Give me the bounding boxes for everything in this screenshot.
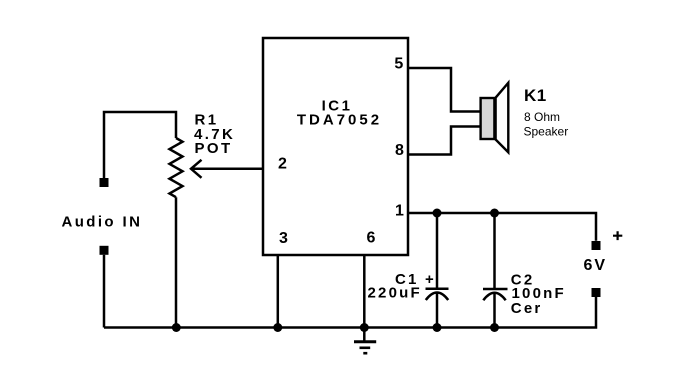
battery - terminal square (592, 288, 601, 297)
capacitor C2 top plate (483, 288, 508, 291)
node junction dot C2 bottom (490, 323, 499, 332)
wire pin 1 to supply + node (408, 213, 596, 241)
svg-text:Cer: Cer (511, 300, 543, 317)
capacitor C1 curved plate (426, 293, 448, 301)
svg-text:6V: 6V (584, 257, 608, 274)
svg-text:3: 3 (279, 230, 288, 247)
svg-text:6: 6 (366, 230, 375, 247)
wiper arrowhead (191, 160, 202, 178)
svg-text:220uF: 220uF (368, 285, 422, 302)
wire IC pin 3 down to ground rail (277, 256, 280, 328)
capacitor C1 top lead (436, 213, 439, 288)
capacitor C2 curved plate (483, 293, 505, 301)
ground stub wire (363, 328, 366, 342)
svg-text:8: 8 (395, 142, 404, 159)
wire battery - terminal to ground rail (104, 297, 596, 328)
wiper arrow wire from IC pin 2 to R1 (192, 168, 263, 171)
wire pin 5 to speaker upper (408, 68, 480, 112)
speaker K1 cone (496, 83, 509, 153)
+ polarity sign (613, 231, 622, 240)
wire from Audio IN upper terminal up and right to R1 top (104, 112, 176, 178)
svg-text:5: 5 (394, 56, 403, 73)
speaker K1 driver body (481, 98, 495, 139)
capacitor C1 top plate (426, 288, 449, 291)
wire pin 8 to speaker lower (408, 127, 480, 155)
op-amp IC U1 body rectangle (263, 38, 408, 255)
terminal square Audio IN upper (100, 178, 109, 187)
node junction dot R1 / rail (172, 323, 181, 332)
capacitor C2 top lead (493, 213, 496, 288)
svg-text:Speaker: Speaker (524, 125, 569, 139)
svg-text:K1: K1 (524, 86, 547, 105)
battery + terminal square (592, 241, 601, 250)
wire R1 bottom to ground rail (175, 197, 178, 327)
node junction dot C1 bottom (433, 323, 442, 332)
wire from Audio IN lower terminal down to ground rail (103, 255, 106, 328)
node junction dot pin 3 / rail (273, 323, 282, 332)
svg-text:POT: POT (195, 140, 233, 157)
svg-text:1: 1 (395, 203, 404, 220)
resistor R1 potentiometer zigzag (170, 138, 183, 197)
ground symbol (354, 340, 376, 343)
wire IC pin 6 down to ground rail (363, 256, 366, 328)
svg-text:TDA7052: TDA7052 (297, 112, 382, 129)
capacitor C2 bottom lead (493, 293, 496, 327)
svg-text:Audio IN: Audio IN (62, 214, 143, 231)
capacitor C1 bottom lead (436, 293, 439, 328)
svg-text:8 Ohm: 8 Ohm (524, 110, 560, 124)
node junction dot C2 top (490, 209, 499, 218)
node junction dot C1 top (433, 209, 442, 218)
terminal square Audio IN lower (100, 246, 109, 255)
svg-text:2: 2 (278, 156, 287, 173)
node junction dot pin 6 / rail (360, 323, 369, 332)
